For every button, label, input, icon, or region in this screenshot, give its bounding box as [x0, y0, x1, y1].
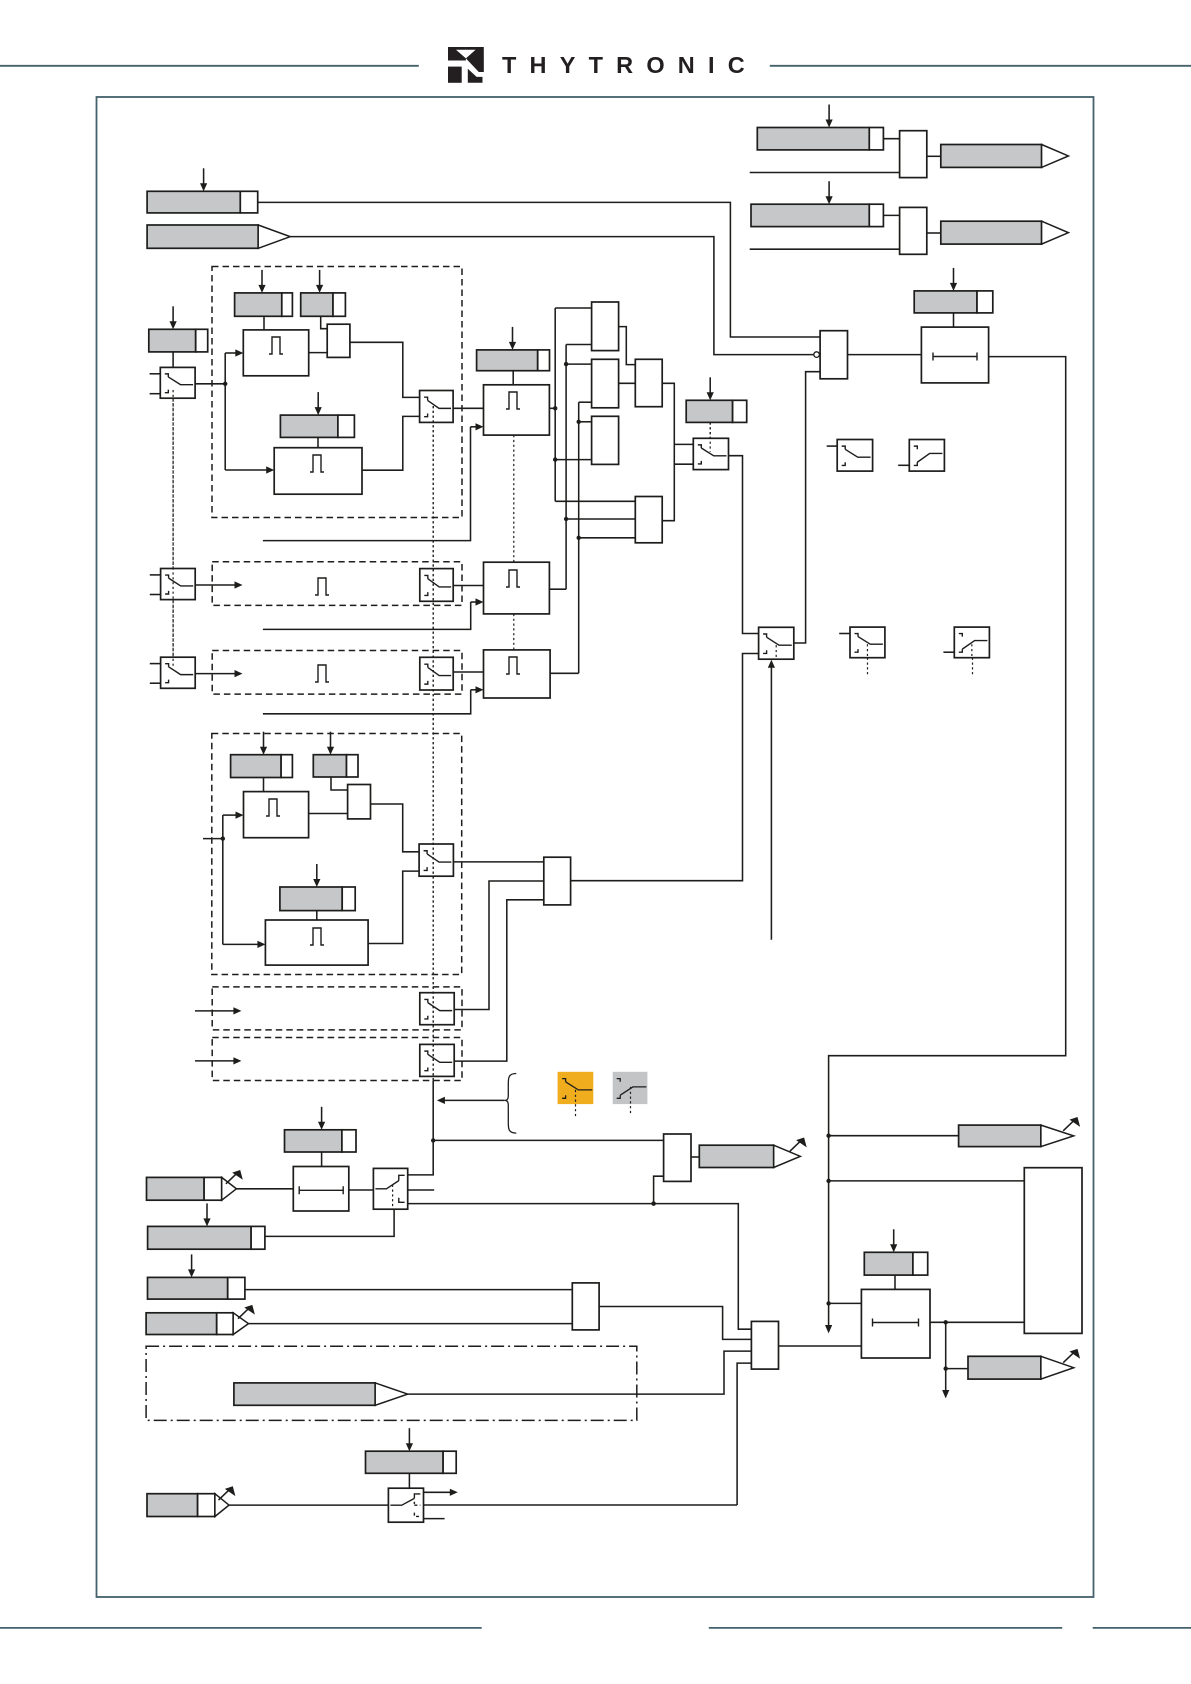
wire M1 lower input — [263, 423, 484, 540]
select dotted G-SWG — [709, 422, 711, 452]
AND gate W2 — [348, 785, 371, 819]
wire IF0 to gate inverted input — [290, 237, 814, 355]
input flag DF — [234, 1383, 408, 1405]
setting box GM1 — [477, 327, 550, 371]
legend switch down-position — [898, 440, 944, 472]
input flag IF3 — [147, 1486, 235, 1516]
THYTRONIC logo mark — [448, 47, 484, 83]
selector switch SW2 — [150, 569, 195, 600]
select dotted overlay main — [432, 406, 434, 1081]
setting box G2b — [313, 732, 358, 777]
wire T4 out to SW4 — [368, 871, 419, 943]
wire OR1 lower input — [651, 1176, 663, 1206]
wire arrow into DB5 — [195, 1007, 241, 1014]
wire riser to SW-G upper — [674, 443, 693, 445]
setting box G-B2 — [148, 1203, 265, 1249]
setting box G-L2 — [864, 1229, 927, 1275]
input flag IF2 — [146, 1305, 255, 1335]
wire B out to D — [619, 382, 636, 384]
setting box G-B3 — [148, 1254, 245, 1299]
wire MB out to OR2 — [599, 1307, 751, 1340]
wire SW2 arrow into DB2 — [195, 581, 242, 588]
wire SW8 stub — [424, 1518, 445, 1520]
wire WB2 out — [927, 232, 941, 234]
step glyph DB3 — [315, 665, 329, 682]
wire IF1 to L2a — [236, 1188, 293, 1190]
output flag F3 — [968, 1349, 1080, 1379]
wire v2 to box E — [566, 518, 635, 520]
legend switch up with select — [839, 627, 885, 676]
timer block T2 — [274, 448, 362, 495]
wire OR1 out — [691, 1156, 699, 1158]
selector switch SW7 — [373, 1168, 407, 1209]
legend switch down with select — [943, 627, 989, 676]
wire v1 to box A — [555, 307, 591, 309]
setting box R2 — [751, 181, 883, 226]
wire rail into group — [203, 836, 225, 840]
legend switch up-position — [827, 440, 873, 472]
wire GM1 to M1 — [512, 371, 514, 385]
select solid main — [408, 1081, 436, 1175]
dashed group box DB1 — [212, 267, 462, 518]
timer block M3 — [484, 650, 551, 698]
wire SW6 riser to Box5 — [454, 900, 544, 1061]
wire A out to D — [619, 327, 636, 365]
wire SW-B out to gate — [794, 372, 820, 643]
wire SW3 arrow into DB3 — [195, 670, 242, 677]
wire R2 lower input — [750, 248, 900, 250]
setting box R1 — [757, 105, 883, 150]
wire junction to T2 input arrow — [225, 384, 274, 474]
wire G-L1 to L1 — [953, 313, 955, 327]
logic box WB1 — [900, 131, 927, 178]
logic box OR1 — [664, 1134, 691, 1181]
wire G-RL to L2a — [321, 1152, 323, 1167]
wire L1 out long — [825, 357, 1066, 1334]
wire SW1 out with junction — [195, 382, 227, 386]
wire SW-DB3 out — [453, 671, 483, 673]
latch block L2a — [293, 1167, 349, 1212]
output flag OF2 — [941, 221, 1069, 244]
setting box G3b — [280, 864, 355, 911]
footer rule right — [1093, 1627, 1191, 1629]
wire G1 to T1 — [263, 316, 265, 330]
selector switch SW-DB2 — [420, 569, 453, 602]
dash-dot group box DDB — [146, 1346, 637, 1420]
wire M3 lower input — [263, 686, 484, 714]
wire rail to T4 arrow — [223, 839, 266, 948]
wire L2b out down — [944, 1322, 948, 1371]
timer block T3 — [244, 792, 309, 838]
setting box B1 — [147, 168, 258, 213]
wire v2 to box A — [566, 344, 592, 346]
wire v3 to box B — [579, 401, 592, 403]
wire SW8 out arrow — [424, 1489, 458, 1496]
input flag IF0 — [147, 225, 290, 248]
dashed group box DB2 — [212, 562, 462, 606]
select dotted overlay SW1-SW3 — [172, 390, 174, 666]
setting box G2 — [301, 270, 346, 316]
wire G2 to W1 — [321, 316, 328, 328]
selector switch SW-DB1 — [420, 391, 454, 423]
wire M2 out to v2 — [549, 588, 566, 590]
wire v1 to box C — [555, 459, 591, 461]
wire IF3 to SW8 — [229, 1504, 388, 1506]
logic box E — [635, 497, 662, 543]
footer rule left — [0, 1627, 482, 1629]
dashed group box DB5 — [212, 987, 462, 1030]
timer block M2 — [484, 562, 550, 614]
THYTRONIC header rule left — [0, 65, 419, 67]
logic box A — [592, 302, 619, 351]
output flag OF1 — [941, 145, 1069, 168]
dashed group box DBG — [212, 734, 462, 975]
selector switch SW-B — [759, 627, 794, 659]
wire SW-DB2 out — [453, 585, 483, 587]
logic box Box5 — [544, 857, 571, 905]
wire G3 to T2 — [317, 437, 319, 447]
selector switch SW4 — [419, 844, 453, 876]
wire G0 to SW1 — [172, 352, 174, 368]
wire bottom riser to OR2 — [737, 1363, 751, 1505]
wire W1 out to SW-DB1 — [350, 342, 420, 397]
wire G-B4 to SW8 — [408, 1473, 410, 1488]
setting dotted M1-M2 — [513, 435, 515, 562]
THYTRONIC wordmark — [502, 52, 758, 78]
wire G1b to T3 — [263, 778, 265, 792]
step glyph DB2 — [315, 578, 329, 595]
timer block M1 — [484, 385, 550, 435]
logic box MB — [572, 1283, 599, 1330]
wire T3 out — [309, 813, 348, 815]
wire up-arrow into SW-B — [768, 660, 775, 940]
wire dot to L2b — [829, 1302, 862, 1304]
wire M2 lower input — [263, 598, 484, 629]
wire M3 out to v3 — [550, 672, 579, 674]
wire IF2 to MB — [249, 1323, 573, 1325]
wire SW-G out riser A — [729, 456, 759, 634]
select dotted main — [432, 406, 434, 1081]
breaker box TB — [1024, 1168, 1082, 1334]
wire R1 lower input — [750, 172, 900, 174]
wire WB1 out — [927, 155, 941, 157]
wire to flag F3 — [946, 1368, 968, 1370]
wire riser B from Box5 — [571, 654, 759, 881]
dashed group box DB3 — [212, 651, 462, 695]
wire L2b out to TB — [930, 1320, 1024, 1324]
logic box WB2 — [900, 207, 927, 254]
wire legend arrow — [437, 1097, 504, 1104]
legend gray switch — [613, 1072, 648, 1115]
logic gate G1 with inverted input — [814, 331, 848, 379]
AND gate W1 — [327, 324, 350, 357]
svg-text:THYTRONIC: THYTRONIC — [502, 52, 758, 78]
wire G2b to W2 — [331, 777, 348, 790]
wire M1 out — [549, 406, 557, 410]
wire select to OR1 — [433, 1139, 663, 1141]
wire v2 to box B — [566, 363, 592, 365]
wire v1 to box E — [555, 500, 635, 502]
wire v3 to box C — [579, 421, 592, 423]
selector switch SW-DB3 — [420, 657, 453, 690]
setting box G3 — [280, 392, 354, 437]
selector switch SW6 — [420, 1044, 454, 1076]
select dotted overlay SW-G — [709, 422, 711, 452]
wire to flag F2 — [829, 1135, 959, 1137]
wire arrow into DB6 — [195, 1057, 241, 1064]
setting box G0 over SW1 — [149, 306, 208, 352]
selector switch SW8 — [388, 1488, 423, 1522]
wire SW7 bottom to G-B2 — [265, 1209, 394, 1236]
setting box G-SWG — [686, 377, 746, 422]
setting box G-RL — [285, 1107, 357, 1152]
setting dotted M2-M3 — [513, 614, 515, 650]
wire gate out to L1 — [848, 354, 922, 356]
latch block L1 — [921, 327, 988, 383]
timer block T4 — [265, 920, 368, 965]
THYTRONIC header rule right — [770, 65, 1191, 67]
input flag IF1 — [147, 1170, 243, 1200]
wire L2a out — [349, 1189, 374, 1191]
setting box G1b — [231, 732, 293, 778]
logic box OR2 — [751, 1321, 778, 1369]
selector switch SW1 — [150, 367, 196, 398]
wire G-L2 to L2b — [894, 1275, 896, 1289]
setting box G-L1 — [914, 268, 993, 313]
timer block T1 — [243, 330, 308, 376]
logic box D — [635, 359, 662, 406]
output flag F1 — [699, 1138, 806, 1168]
output flag F2 — [959, 1117, 1081, 1147]
footer rule middle — [709, 1627, 1062, 1629]
logic box C — [592, 416, 619, 464]
wire T1 out — [309, 352, 328, 354]
dashed group box DB6 — [212, 1038, 462, 1081]
wire W2 out to SW4 — [371, 804, 420, 852]
wire junction to T1 input arrow — [225, 349, 243, 383]
logic box B — [592, 359, 619, 408]
wire G-B3 to MB — [245, 1289, 572, 1291]
wire v3 to box E — [579, 537, 636, 539]
wire SW7 stub — [408, 1189, 435, 1191]
latch block L2b — [861, 1289, 930, 1358]
wire SW8 through line — [424, 1504, 738, 1506]
setting box G1 — [235, 270, 293, 316]
setting box G-B4 — [366, 1428, 457, 1473]
wire B1 to gate — [258, 202, 820, 337]
wire SW-DB1 out to M1 — [453, 407, 483, 409]
wire riser v3 — [577, 402, 581, 673]
wire DF to OR2 — [408, 1351, 752, 1394]
wire down arrow end — [942, 1369, 949, 1399]
legend brace — [504, 1074, 516, 1134]
wire SW7 out long — [408, 1201, 752, 1329]
wire R2 to WB2 — [883, 214, 899, 216]
wire riser v1 — [553, 308, 557, 501]
wire SW4 out to Box5 — [453, 861, 543, 863]
selector switch SW-G — [693, 438, 728, 469]
wire rail to T3 arrow — [223, 812, 244, 839]
wire R1 to WB1 — [883, 138, 899, 140]
selector switch SW3 — [150, 657, 195, 688]
wire G3b to T4 — [316, 911, 318, 920]
select dotted line SW1-SW3 — [172, 398, 174, 666]
wire SW5 riser to Box5 — [454, 881, 544, 1010]
wire to tall box TB — [829, 1180, 1025, 1182]
wire riser v2 — [564, 345, 568, 590]
wire riser to SW-G lower — [674, 463, 693, 465]
page border — [97, 97, 1094, 1597]
wire D out riser — [662, 383, 674, 520]
wire T2 out to SW-DB1 — [362, 416, 420, 470]
legend yellow switch — [558, 1072, 594, 1117]
selector switch SW5 — [420, 993, 454, 1025]
wire OR2 out — [779, 1345, 862, 1347]
